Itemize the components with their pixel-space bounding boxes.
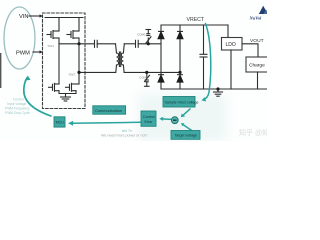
svg-text:VOUT: VOUT	[250, 38, 264, 44]
svg-text:Control: Control	[143, 115, 155, 119]
svg-text:MCU: MCU	[56, 121, 65, 125]
wire right column	[179, 39, 181, 75]
COM2 modulation branch	[145, 72, 150, 86]
diode D2	[177, 30, 183, 32]
wire right column top	[179, 25, 181, 31]
diode D4	[177, 74, 183, 76]
svg-text:Communication: Communication	[95, 108, 122, 113]
charger U2	[246, 57, 269, 72]
wire SW2 out	[76, 83, 79, 85]
node Input ellipse	[4, 7, 35, 69]
bottom rail	[161, 88, 267, 90]
svg-text:SW1: SW1	[48, 44, 55, 48]
summing node	[171, 117, 178, 124]
sigma in summing node	[173, 119, 177, 121]
inverter dashed box	[43, 13, 86, 109]
wire drop to Q1	[58, 18, 60, 32]
arrowhead sample-sum	[181, 114, 185, 118]
arrow target to sum	[184, 125, 192, 130]
arrowhead target-sum	[181, 123, 185, 126]
labels	[16, 14, 30, 56]
arrowhead into MCU	[68, 121, 73, 126]
svg-text:Error: Error	[145, 120, 154, 124]
diode D3	[158, 74, 164, 76]
svg-text:Charge: Charge	[249, 63, 265, 69]
arrow sample to sum	[183, 109, 190, 115]
wire top rail	[45, 17, 83, 19]
VIN arrowhead	[40, 14, 44, 17]
curve VRECT to sample	[203, 24, 210, 100]
transistor Q3	[49, 83, 60, 91]
PWM arrowhead	[40, 50, 44, 53]
teal boxes	[54, 97, 200, 140]
box Target voltage	[171, 131, 200, 140]
svg-text:COM1: COM1	[137, 33, 146, 37]
svg-text:Control: Control	[13, 98, 24, 102]
arrowhead sum-error	[159, 117, 163, 121]
wire charger return	[257, 72, 259, 89]
capacitor C3 (VRECT)	[200, 25, 207, 89]
svg-text:PWM Duty Cycle: PWM Duty Cycle	[5, 111, 30, 115]
wire rail to LDO	[227, 25, 229, 38]
wire drop to Q2	[78, 18, 80, 32]
wire secondary bottom	[124, 71, 180, 73]
curve MCU to input	[24, 78, 51, 116]
svg-text:VRECT: VRECT	[187, 17, 205, 23]
wire column bottoms	[160, 82, 162, 89]
wire SW1 node	[59, 43, 94, 45]
COM1 modulation branch	[146, 30, 151, 44]
arrowhead into sample	[202, 97, 207, 101]
wire VIN arrow	[29, 15, 41, 17]
svg-text:知乎 @知: 知乎 @知	[239, 128, 267, 137]
arrow error to MCU	[71, 121, 141, 124]
arrow sum to error	[162, 118, 172, 121]
wire left column	[160, 39, 162, 75]
teal box labels	[56, 100, 199, 137]
svg-text:LDO: LDO	[226, 42, 236, 48]
transistor Q4	[66, 83, 77, 91]
svg-text:We need more power or not?: We need more power or not?	[101, 134, 147, 138]
wire right leg	[78, 38, 80, 84]
junction dots	[147, 43, 149, 45]
arrowhead up to input	[25, 76, 31, 81]
svg-text:NuVol: NuVol	[249, 15, 263, 20]
transistor Q1	[47, 31, 59, 39]
wire LDO out VOUT	[242, 44, 258, 57]
svg-text:Input Voltage: Input Voltage	[7, 102, 26, 106]
capacitor C1 (primary series)	[95, 40, 116, 47]
ground (output)	[214, 89, 223, 96]
box Communication	[93, 106, 126, 114]
svg-text:VIN: VIN	[19, 14, 28, 20]
left edge dark sliver	[0, 53, 1, 88]
ground (bridge)	[61, 94, 71, 102]
box Control Error	[141, 111, 156, 126]
svg-text:SW2: SW2	[69, 72, 76, 76]
box MCU	[54, 117, 65, 127]
handwriting notes	[5, 98, 30, 116]
svg-text:tell Tx: tell Tx	[122, 129, 132, 133]
wire LDO return	[230, 50, 232, 89]
logo NuVolta	[249, 6, 269, 21]
transistor Q2	[67, 31, 79, 39]
svg-text:COM2: COM2	[139, 76, 148, 80]
wire source join	[59, 91, 76, 94]
capacitor C2 (secondary series)	[136, 40, 162, 47]
wire left leg	[58, 38, 60, 84]
svg-text:Sample Vrect voltage: Sample Vrect voltage	[165, 100, 199, 104]
rectifier top rail VRECT	[161, 25, 228, 31]
teal annotation curves	[24, 24, 211, 131]
box Sample Vrect voltage	[163, 97, 195, 108]
wire PWM arrow	[33, 51, 41, 53]
LDO U1	[222, 38, 243, 51]
svg-text:Target voltage: Target voltage	[175, 134, 198, 138]
wire secondary top	[124, 43, 135, 45]
svg-text:PWM Frequency: PWM Frequency	[5, 107, 30, 111]
diode D1	[78, 31, 219, 90]
svg-text:PWM: PWM	[16, 50, 30, 56]
transformer T1	[116, 44, 125, 73]
